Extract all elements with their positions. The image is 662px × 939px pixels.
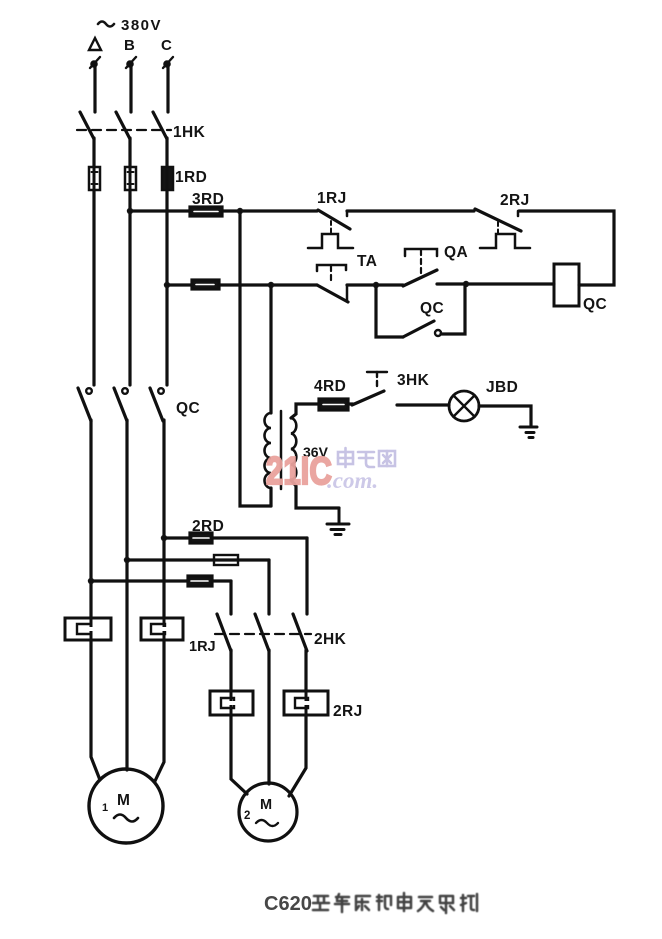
wire phase B 1RD to QC contact	[128, 190, 131, 385]
svg-text:3RD: 3RD	[192, 191, 224, 208]
QC auxiliary branch right wire	[441, 284, 465, 334]
ground lamp	[520, 427, 537, 438]
svg-text:C: C	[161, 37, 172, 54]
thermal contact 2RT blade	[475, 209, 521, 231]
wire 1HK to 1RD phase C	[165, 138, 168, 167]
wire 1HK to 1RD phase B	[128, 138, 131, 167]
contactor coil QC	[554, 264, 579, 306]
svg-text:2HK: 2HK	[314, 631, 347, 648]
switch 2HK pole 1 blade	[217, 614, 231, 651]
start button QA bracket	[405, 249, 437, 256]
wire phase A QC to heater 1RT	[89, 420, 92, 618]
svg-text:380V: 380V	[121, 17, 162, 34]
terminal phase C	[163, 57, 173, 68]
switch 2HK pole 3 blade	[293, 614, 307, 651]
fuse 1RD phase B	[125, 167, 136, 190]
wire control line 1 left	[130, 209, 190, 212]
svg-text:2RD: 2RD	[192, 518, 224, 535]
wire 2RD line C down to 2HK	[229, 581, 232, 614]
wire transformer secondary bottom	[291, 480, 339, 508]
wire phase A drop to 1HK	[93, 67, 96, 112]
node 2RD tap phase A	[88, 578, 94, 584]
wire 2RD line A from phase C	[164, 536, 307, 539]
switch 2HK pole 2 blade	[255, 614, 269, 651]
switch 1HK pole 3 blade	[153, 112, 167, 139]
thermal relay 1RT heater element phase A	[65, 618, 111, 640]
thermal element 1RT dashed link	[330, 221, 332, 233]
wire control line 2 left	[167, 283, 192, 286]
thermal element symbol 2RT	[480, 234, 530, 248]
node transformer primary tap bottom	[268, 282, 274, 288]
svg-text:B: B	[124, 37, 135, 54]
svg-text:3HK: 3HK	[397, 372, 430, 389]
stop button TA actuator (dashed)	[330, 266, 332, 281]
ground transformer secondary	[327, 508, 349, 535]
switch 2HK linkage (dashed)	[215, 633, 311, 635]
wire transformer primary top leg	[269, 285, 272, 413]
wire transformer secondary top	[291, 404, 319, 418]
node B control tap	[127, 208, 133, 214]
start button QA blade	[403, 270, 437, 286]
svg-text:QC: QC	[176, 400, 200, 417]
svg-text:1RJ: 1RJ	[317, 190, 347, 207]
stop button TA fixed contact	[346, 285, 349, 300]
svg-text:M: M	[260, 797, 272, 813]
svg-text:2: 2	[244, 810, 250, 822]
thermal contact 1RT fixed stub	[346, 211, 349, 216]
wire phase B QC down to motor M1	[125, 420, 128, 770]
thermal contact 1RT blade	[318, 210, 350, 229]
wire control line 2 mid	[219, 283, 317, 286]
node QC aux right	[463, 281, 469, 287]
switch 1HK pole 2 blade	[116, 112, 130, 139]
watermark CJK 电子网	[338, 448, 395, 467]
label ~380V	[98, 17, 162, 34]
wire phase C heater to motor M1	[155, 640, 164, 781]
contactor QC main contact pole 3	[150, 388, 164, 421]
thermal contact 2RT fixed stub	[517, 211, 520, 216]
terminal phase A	[90, 57, 100, 68]
node 2RD tap phase B	[124, 557, 130, 563]
svg-text:1RD: 1RD	[175, 169, 207, 186]
wire heater left to motor M2	[231, 715, 247, 794]
wire phase B drop to 1HK	[129, 67, 132, 112]
wire phase C QC to heater 1RT	[162, 420, 165, 618]
motor M2 labels	[244, 797, 272, 822]
phase label A	[89, 38, 101, 50]
wire QA to coil QC	[437, 282, 554, 285]
svg-text:QA: QA	[444, 244, 468, 261]
transformer primary winding	[265, 413, 271, 488]
start button QA actuator (dashed)	[420, 250, 422, 277]
node QC aux left	[373, 282, 379, 288]
wire 2HK pole3 to heater 2RT	[304, 650, 307, 691]
fuse 2RD line B	[214, 555, 238, 565]
svg-text:TA: TA	[357, 253, 377, 270]
thermal relay 2RT heater element left	[210, 691, 253, 715]
wire phase A heater to motor M1	[91, 640, 100, 780]
fuse 1RD phase C	[162, 167, 173, 190]
transformer secondary winding	[291, 418, 296, 480]
svg-text:2RJ: 2RJ	[500, 192, 530, 209]
switch 3HK blade	[352, 391, 384, 405]
switch 1HK pole 1 blade	[80, 112, 94, 139]
wire 2RD line A down to 2HK	[305, 538, 308, 614]
svg-text:1HK: 1HK	[173, 124, 206, 141]
wire 1HK to 1RD phase A	[92, 138, 95, 167]
wire phase C drop to 1HK	[166, 67, 169, 112]
wire control line 1 mid	[222, 209, 317, 212]
svg-text:2RJ: 2RJ	[333, 703, 363, 720]
svg-text:C620: C620	[264, 893, 312, 915]
thermal relay 1RT heater element phase C	[141, 618, 183, 640]
wire phase A 1RD to QC contact	[92, 190, 95, 385]
wire heater right to motor M2	[289, 715, 306, 796]
thermal element symbol 1RT	[308, 234, 353, 248]
wire 2RD line B down to 2HK	[267, 560, 270, 614]
motor M2 circle	[239, 783, 297, 841]
wire lamp to ground	[479, 406, 531, 426]
contactor QC main contact pole 1	[78, 388, 92, 421]
wire phase C 1RD to QC contact	[165, 190, 168, 385]
motor M2 tilde	[256, 820, 278, 826]
stop button TA blade	[317, 285, 348, 302]
wire TA to QA	[347, 283, 403, 286]
svg-text:QC: QC	[583, 296, 607, 313]
wire 2HK pole2 down to motor M2	[267, 650, 270, 784]
switch 1HK linkage (dashed)	[77, 129, 171, 131]
switch 3HK actuator	[367, 372, 387, 389]
wire 2RD line B from phase B	[127, 558, 269, 561]
wire 4RD to 3HK	[348, 402, 353, 405]
svg-text:JBD: JBD	[486, 379, 518, 396]
motor M1 labels	[102, 792, 130, 814]
terminal phase B	[126, 57, 136, 68]
wire 2RD line C from phase A	[91, 579, 231, 582]
QC auxiliary contact blade	[403, 321, 434, 337]
wire 2HK pole1 to heater 2RT	[229, 650, 232, 691]
wire control line 1 right + drop to coil	[519, 211, 614, 285]
thermal relay 2RT heater element right	[284, 691, 328, 715]
stop button TA bracket	[317, 265, 346, 271]
transformer core	[280, 411, 283, 489]
thermal element 2RT dashed link	[497, 222, 499, 233]
svg-text:1RJ: 1RJ	[189, 639, 216, 655]
node transformer primary tap top	[237, 208, 243, 214]
svg-text:1: 1	[102, 802, 108, 814]
fuse 3RD	[190, 207, 222, 216]
contactor QC main contact pole 2	[114, 388, 128, 421]
svg-text:QC: QC	[420, 300, 444, 317]
svg-text:21IC: 21IC	[266, 450, 332, 493]
wire control line 1 between 1RT and 2RT	[347, 209, 474, 212]
lamp JBD	[449, 391, 479, 421]
fuse 2RD line C	[188, 576, 212, 586]
fuse 1RD phase A	[89, 167, 100, 190]
wire transformer primary bottom	[269, 488, 272, 506]
fuse control line 2	[192, 280, 219, 289]
motor M1 circle	[89, 769, 163, 843]
QC auxiliary contact branch left wire	[376, 285, 403, 337]
caption CJK 型车床的电气控制	[313, 893, 477, 913]
node 2RD tap phase C	[161, 535, 167, 541]
wire transformer primary left leg	[240, 211, 271, 506]
fuse 2RD line A	[190, 533, 212, 543]
svg-text:4RD: 4RD	[314, 378, 346, 395]
motor M1 tilde	[114, 815, 138, 822]
svg-text:.com.: .com.	[327, 468, 378, 493]
QC auxiliary contact fixed circle	[435, 330, 441, 336]
fuse 4RD	[319, 399, 348, 410]
svg-text:M: M	[117, 792, 130, 809]
wire 3HK to lamp	[397, 403, 449, 406]
node C control tap	[164, 282, 170, 288]
